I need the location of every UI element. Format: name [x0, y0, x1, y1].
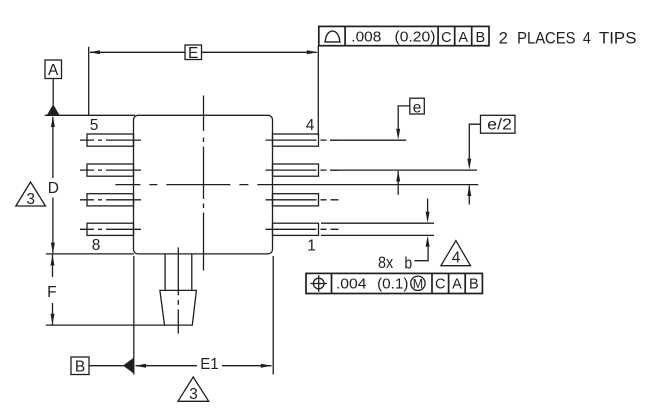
svg-text:B: B	[469, 277, 479, 293]
e/2 label box	[481, 115, 516, 133]
e up arrow	[396, 171, 400, 182]
E left arrow	[89, 50, 100, 54]
dimension F line	[52, 255, 54, 325]
FCF2 M-circle (MMC modifier)	[411, 276, 425, 290]
datum A symbol box	[45, 60, 62, 79]
svg-text:(0.20): (0.20)	[395, 30, 436, 46]
svg-text:3: 3	[26, 191, 35, 208]
pin 3 centerline	[266, 169, 339, 171]
svg-text:.004: .004	[336, 276, 367, 292]
pin 6	[87, 164, 134, 176]
dimension E1 extension line right	[272, 256, 274, 375]
b leader	[415, 247, 429, 261]
dimension E extension line right / FCF1 leader	[317, 46, 319, 136]
FCF2 frame	[306, 273, 482, 293]
body vertical centerline	[203, 96, 205, 274]
svg-text:A: A	[458, 30, 468, 46]
dimension E1 extension line left	[133, 256, 135, 375]
D bottom arrow	[51, 243, 55, 254]
svg-text:4: 4	[306, 117, 315, 134]
E1 right arrow	[261, 364, 272, 368]
pin1 bottom edge extension (b)	[321, 234, 434, 236]
svg-text:B: B	[475, 30, 485, 46]
pin1 top edge extension (b)	[321, 222, 434, 224]
svg-text:F: F	[47, 284, 56, 301]
triangle note 3 bottom	[178, 377, 209, 401]
body centerline extension right (e/2)	[341, 184, 478, 186]
FCF2 true-position symbol	[311, 275, 328, 291]
dimension E extension line left	[88, 47, 90, 116]
e/2 down arrow	[467, 159, 471, 170]
E1 left arrow	[135, 364, 146, 368]
E label box	[185, 45, 202, 60]
dimension E1 line	[136, 365, 272, 367]
pin 4 centerline	[266, 139, 339, 141]
b down arrow	[426, 212, 430, 223]
bottom tab neck	[165, 254, 192, 290]
pin 5	[87, 134, 134, 146]
svg-text:D: D	[48, 180, 59, 197]
svg-text:4: 4	[583, 29, 591, 47]
dimension E line	[90, 51, 317, 53]
FCF1 profile-of-surface symbol	[324, 31, 341, 42]
svg-text:3: 3	[189, 386, 198, 403]
svg-text:PLACES: PLACES	[517, 29, 575, 47]
e/2 up arrow	[467, 185, 471, 196]
svg-text:A: A	[452, 277, 462, 293]
datum B symbol box	[71, 357, 89, 375]
svg-text:E1: E1	[200, 356, 219, 373]
pin 7	[87, 194, 134, 206]
FCF1 frame	[319, 26, 489, 45]
E right arrow	[307, 50, 318, 54]
tab bottom extension line (F)	[46, 324, 165, 326]
pin 5 centerline	[80, 139, 141, 141]
e/2 leader elbow	[469, 124, 480, 159]
datum A filled triangle	[47, 104, 60, 115]
D top arrow	[51, 116, 55, 127]
svg-text:.008: .008	[351, 30, 381, 46]
b up arrow	[426, 236, 430, 247]
e up arrow tail	[397, 171, 399, 195]
e leader elbow	[398, 106, 410, 129]
svg-text:C: C	[441, 30, 451, 46]
pin3 centerline extension (e, e/2)	[330, 169, 477, 171]
package body U1 outline	[134, 115, 273, 254]
body horizontal centerline	[115, 184, 341, 186]
svg-text:4: 4	[452, 250, 461, 267]
pin 8 centerline	[80, 228, 141, 230]
datum A leader	[52, 79, 54, 105]
pin4 centerline extension (e)	[330, 139, 406, 141]
pin 1	[273, 223, 319, 235]
svg-text:8x: 8x	[378, 253, 394, 272]
pin 6 centerline	[80, 169, 141, 171]
svg-text:e: e	[413, 99, 422, 116]
dimension D line	[52, 117, 54, 253]
svg-text:E: E	[188, 45, 198, 62]
F bottom arrow	[51, 314, 55, 325]
svg-text:B: B	[75, 359, 85, 376]
svg-text:e/2: e/2	[487, 117, 512, 134]
e label box	[410, 98, 425, 114]
pin 7 centerline	[80, 199, 141, 201]
b down arrow tail	[427, 199, 429, 212]
pin 1 centerline	[266, 228, 339, 230]
datum line from A to body top-left corner	[45, 114, 135, 116]
svg-text:b: b	[404, 253, 412, 272]
svg-text:8: 8	[92, 237, 101, 254]
pin 2 centerline	[266, 199, 339, 201]
tab centerline	[177, 247, 179, 333]
datum B filled triangle	[123, 358, 134, 374]
pin 3	[273, 164, 319, 176]
svg-text:1: 1	[307, 237, 316, 254]
bottom tab tip trapezoid	[160, 290, 197, 325]
svg-text:C: C	[435, 277, 445, 293]
svg-text:A: A	[48, 62, 59, 79]
svg-text:5: 5	[90, 117, 99, 134]
svg-text:(0.1): (0.1)	[377, 276, 408, 292]
datum B leader	[89, 365, 124, 367]
pin 8	[87, 223, 134, 235]
e/2 up arrow tail	[468, 186, 470, 205]
svg-text:M: M	[413, 277, 423, 291]
triangle note 4	[441, 241, 471, 266]
F top arrow	[51, 255, 55, 266]
bottom edge extension line (D/F)	[46, 253, 134, 255]
e down arrow	[396, 129, 400, 140]
pin 2	[273, 194, 319, 206]
pin 4	[273, 134, 319, 146]
svg-text:2: 2	[499, 29, 508, 47]
svg-text:TIPS: TIPS	[599, 29, 637, 47]
triangle note 3 left	[16, 182, 46, 206]
